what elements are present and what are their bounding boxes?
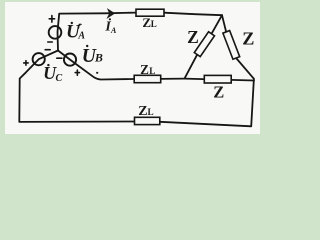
- svg-text:L: L: [151, 19, 157, 29]
- svg-text:L: L: [149, 66, 155, 76]
- svg-text:Z: Z: [138, 104, 147, 119]
- svg-text:B: B: [94, 51, 103, 65]
- svg-text:A: A: [110, 26, 117, 35]
- svg-text:C: C: [56, 73, 63, 84]
- svg-text:Z: Z: [242, 29, 254, 49]
- svg-text:A: A: [77, 30, 85, 41]
- svg-text:Z: Z: [140, 62, 149, 77]
- svg-text:L: L: [148, 107, 154, 117]
- svg-text:Z: Z: [187, 27, 199, 47]
- svg-text:Z: Z: [213, 82, 224, 101]
